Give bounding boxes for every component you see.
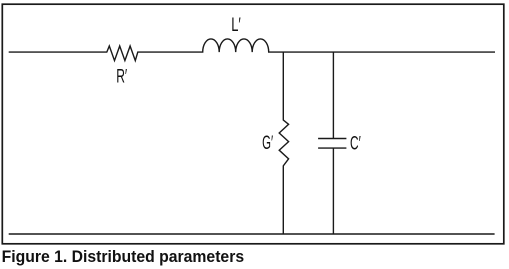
- svg-text:L′: L′: [231, 14, 241, 36]
- svg-text:C′: C′: [350, 132, 361, 154]
- svg-text:Figure 1. Distributed paramete: Figure 1. Distributed parameters: [2, 247, 245, 266]
- svg-text:G′: G′: [262, 132, 273, 154]
- svg-text:R′: R′: [116, 66, 127, 88]
